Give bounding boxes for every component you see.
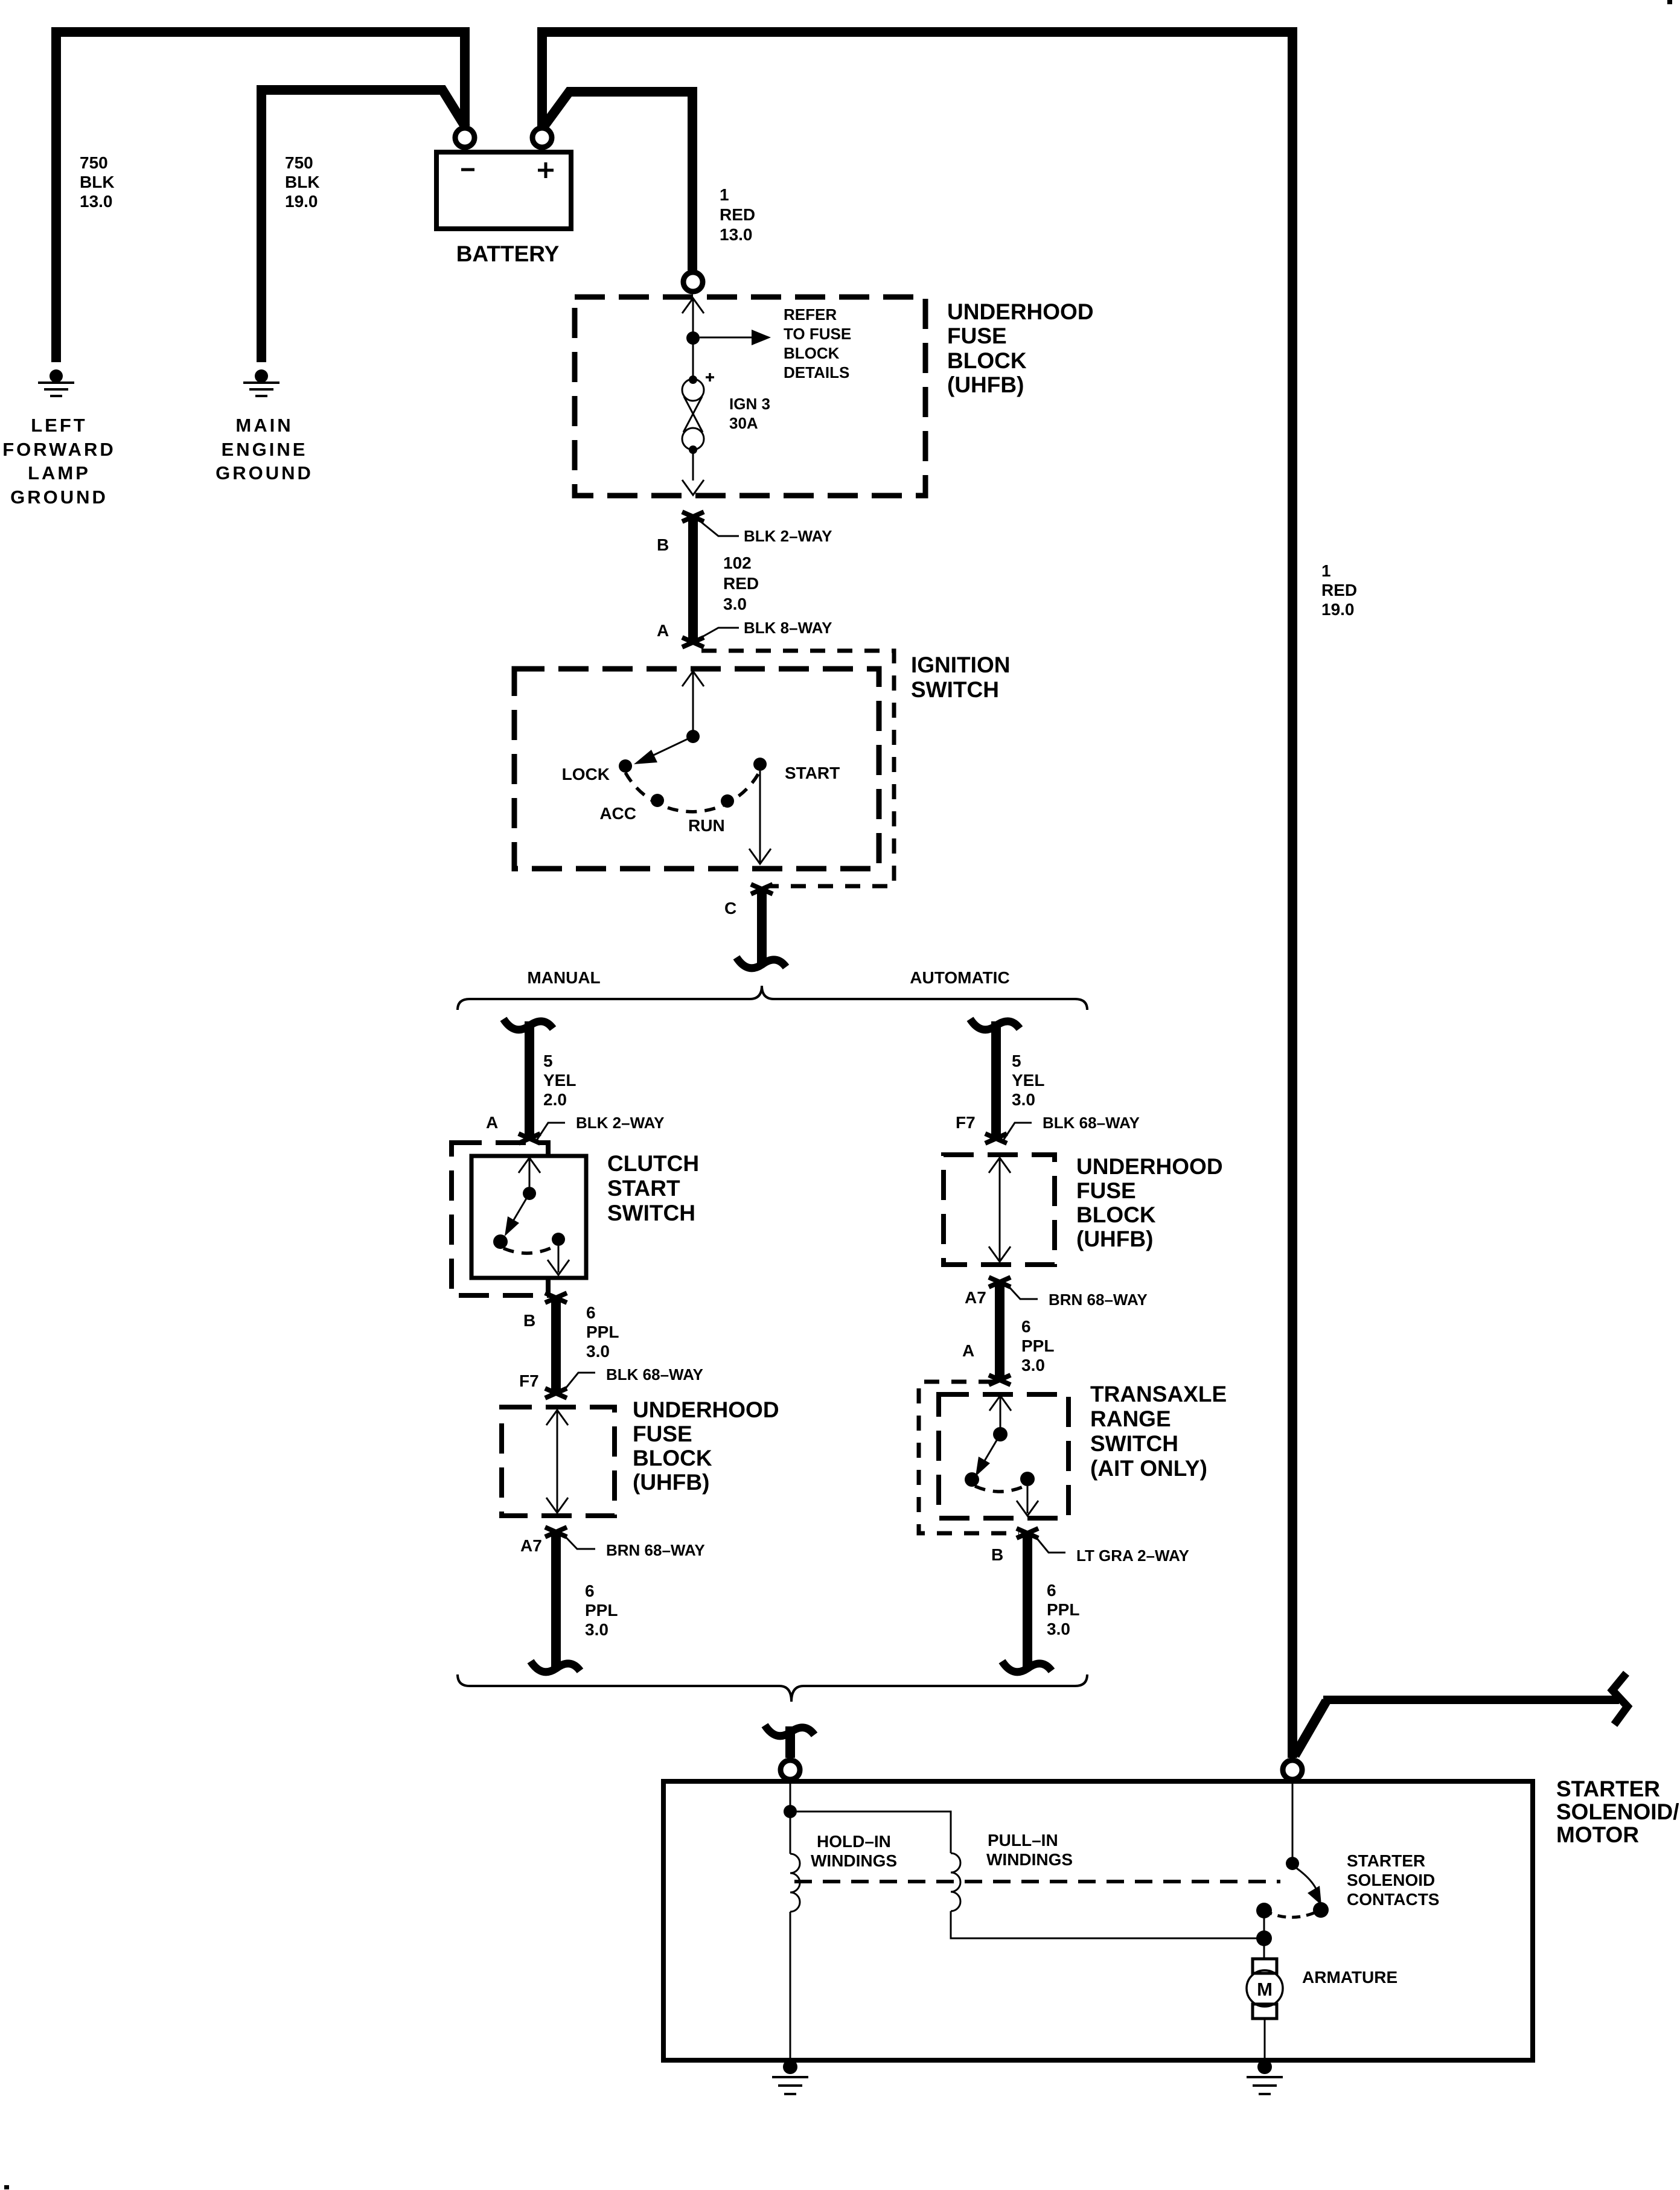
svg-text:3.0: 3.0: [1012, 1090, 1035, 1109]
brace splitting MANUAL / AUTOMATIC: [458, 986, 1087, 1010]
svg-text:ARMATURE: ARMATURE: [1302, 1968, 1397, 1987]
label LEFT FORWARD LAMP GROUND: [2, 415, 116, 508]
wire 750 BLK 13.0 battery negative to left forward lamp ground: [56, 32, 465, 362]
label CLUTCH START SWITCH: [607, 1151, 699, 1225]
svg-text:GROUND: GROUND: [216, 462, 313, 484]
leader LT GRA 2-WAY: [1035, 1536, 1065, 1553]
svg-text:A7: A7: [965, 1288, 986, 1307]
svg-text:(AIT ONLY): (AIT ONLY): [1090, 1456, 1207, 1481]
svg-text:LAMP: LAMP: [28, 462, 91, 484]
armature motor M: [1247, 1959, 1283, 2060]
svg-text:LEFT: LEFT: [31, 415, 88, 436]
svg-text:M: M: [1257, 1979, 1273, 2000]
node junction solenoid feed: [784, 1805, 797, 1818]
svg-text:3.0: 3.0: [585, 1620, 608, 1639]
svg-text:UNDERHOOD: UNDERHOOD: [947, 299, 1094, 324]
svg-text:C: C: [724, 899, 736, 918]
svg-text:6: 6: [585, 1582, 595, 1600]
solenoid contact dot left: [1256, 1903, 1272, 1918]
dashed solenoid contact arc: [1264, 1910, 1321, 1917]
svg-text:1: 1: [1321, 561, 1331, 580]
dashed arc transaxle contacts: [975, 1486, 1024, 1492]
svg-text:BLK 2–WAY: BLK 2–WAY: [576, 1114, 664, 1132]
svg-text:A: A: [486, 1113, 498, 1132]
svg-text:BLK: BLK: [80, 173, 115, 191]
leader BRN 68-WAY manual: [563, 1534, 595, 1549]
wire from ignition switch C: [757, 889, 767, 965]
battery positive terminal: [532, 128, 552, 147]
node junction in UHFB1: [686, 331, 700, 345]
svg-text:PPL: PPL: [585, 1601, 618, 1620]
svg-text:DETAILS: DETAILS: [784, 363, 849, 381]
svg-text:CONTACTS: CONTACTS: [1347, 1890, 1439, 1909]
svg-text:FUSE: FUSE: [633, 1422, 692, 1446]
svg-text:BRN 68–WAY: BRN 68–WAY: [1049, 1291, 1148, 1309]
leader BLK 8-WAY: [699, 628, 739, 639]
svg-text:A: A: [657, 621, 669, 640]
harness hook automatic lower: [1002, 1661, 1052, 1672]
hold-in winding coil: [790, 1854, 800, 1912]
svg-text:GROUND: GROUND: [10, 487, 108, 508]
svg-text:RUN: RUN: [688, 816, 725, 835]
contact dot ACC: [651, 794, 664, 807]
pin arrow into ignition switch: [682, 671, 704, 686]
wire 102 RED 3.0: [688, 517, 698, 641]
pin arrow out of ignition switch: [749, 849, 771, 864]
svg-text:YEL: YEL: [543, 1071, 576, 1090]
ground G3 hold-in: [772, 2060, 808, 2094]
transaxle output line: [1027, 1486, 1029, 1513]
svg-text:MOTOR: MOTOR: [1556, 1822, 1639, 1847]
svg-text:A: A: [962, 1341, 974, 1360]
label STARTER SOLENOID MOTOR: [1556, 1777, 1679, 1847]
pin arrow into UHFB1: [682, 298, 704, 313]
pull-in winding feed: [797, 1812, 951, 1853]
svg-text:5: 5: [1012, 1052, 1021, 1070]
hold-in winding feed line: [790, 1781, 791, 1854]
leader BLK 2-WAY top: [699, 520, 739, 536]
svg-text:30A: 30A: [729, 414, 758, 432]
wire 6 PPL 3.0 manual upper: [551, 1298, 561, 1392]
svg-text:UNDERHOOD: UNDERHOOD: [1076, 1154, 1223, 1179]
connector X mark transaxle pin A: [989, 1375, 1011, 1385]
underhood fuse block UHFB box 2: [502, 1407, 615, 1516]
svg-text:RED: RED: [723, 574, 759, 593]
label UNDERHOOD FUSE BLOCK (UHFB) 2: [633, 1397, 779, 1495]
svg-text:750: 750: [80, 153, 108, 172]
wire 5 YEL 2.0: [525, 1021, 534, 1137]
pin arrow out of clutch switch: [548, 1260, 569, 1275]
svg-text:START: START: [607, 1176, 680, 1201]
svg-text:UNDERHOOD: UNDERHOOD: [633, 1397, 779, 1422]
ignition switch inner box: [514, 669, 879, 869]
pin arrow into transaxle switch: [989, 1396, 1011, 1411]
svg-text:B: B: [657, 535, 669, 554]
svg-text:19.0: 19.0: [285, 192, 318, 211]
dashed detent arc LOCK-ACC-RUN-START: [625, 771, 760, 812]
svg-text:FORWARD: FORWARD: [2, 439, 116, 460]
svg-text:CLUTCH: CLUTCH: [607, 1151, 699, 1176]
wire 6 PPL 3.0 manual lower: [551, 1532, 561, 1670]
wire to starter solenoid S terminal: [785, 1726, 795, 1758]
svg-text:AUTOMATIC: AUTOMATIC: [910, 968, 1009, 987]
svg-text:(UHFB): (UHFB): [947, 372, 1024, 397]
starter solenoid motor box: [663, 1781, 1533, 2060]
svg-text:HOLD–IN: HOLD–IN: [817, 1832, 891, 1851]
svg-text:(UHFB): (UHFB): [1076, 1227, 1153, 1251]
leader BRN 68-WAY automatic: [1007, 1285, 1038, 1299]
svg-text:ENGINE: ENGINE: [222, 439, 308, 460]
wire 5 YEL 3.0: [991, 1021, 1001, 1137]
brace joining branches to starter: [458, 1674, 1087, 1702]
armature feed line: [1263, 1911, 1265, 1959]
wire stub to other circuits with break: [1295, 1701, 1326, 1755]
svg-text:BLK: BLK: [285, 173, 320, 191]
dashed arc clutch contacts: [503, 1246, 555, 1253]
ground G2 main engine ground: [243, 369, 279, 396]
svg-text:WINDINGS: WINDINGS: [986, 1850, 1073, 1869]
transaxle contact dot left: [965, 1472, 979, 1487]
harness hook automatic branch: [970, 1019, 1020, 1030]
ground G1 left forward lamp ground: [38, 369, 74, 396]
svg-text:3.0: 3.0: [1047, 1620, 1070, 1638]
solenoid contact pivot dot: [1286, 1857, 1299, 1870]
svg-text:750: 750: [285, 153, 313, 172]
transaxle range switch inner box: [939, 1394, 1068, 1518]
svg-text:BRN 68–WAY: BRN 68–WAY: [606, 1541, 705, 1559]
svg-text:SOLENOID/: SOLENOID/: [1556, 1799, 1679, 1824]
contact dot LOCK: [619, 759, 632, 773]
svg-text:19.0: 19.0: [1321, 600, 1355, 619]
solenoid contact dot right: [1313, 1902, 1329, 1918]
transaxle switch wiper arrow: [976, 1434, 1000, 1476]
svg-text:STARTER: STARTER: [1347, 1851, 1425, 1870]
pin arrow into clutch switch: [519, 1158, 540, 1173]
harness hook at C: [736, 957, 786, 968]
svg-text:BLK 68–WAY: BLK 68–WAY: [606, 1365, 703, 1384]
scan artifact top right: [1667, 0, 1672, 4]
contact dot START: [753, 758, 767, 771]
connector X mark A7 automatic: [989, 1277, 1011, 1287]
svg-text:2.0: 2.0: [543, 1090, 567, 1109]
clutch contact dot right: [552, 1233, 565, 1246]
connector X mark transaxle pin B: [1017, 1528, 1038, 1538]
node junction pull-in return: [1256, 1930, 1272, 1946]
svg-text:LT GRA 2–WAY: LT GRA 2–WAY: [1076, 1547, 1189, 1565]
svg-text:BLOCK: BLOCK: [633, 1446, 712, 1470]
pull-in winding return: [951, 1911, 1257, 1938]
connector X mark pin B: [682, 512, 704, 522]
svg-text:TO FUSE: TO FUSE: [784, 325, 851, 343]
pass-through arrows UHFB2: [546, 1410, 568, 1513]
svg-text:REFER: REFER: [784, 305, 837, 324]
leader BLK 2-WAY clutch: [535, 1123, 565, 1142]
harness hook starter feed: [765, 1725, 814, 1736]
svg-text:B: B: [523, 1311, 535, 1330]
hold-in winding ground line: [790, 1912, 791, 2060]
svg-text:STARTER: STARTER: [1556, 1777, 1660, 1801]
underhood fuse block UHFB box 1: [575, 297, 925, 496]
svg-text:SWITCH: SWITCH: [607, 1201, 695, 1225]
break symbol continuation: [1612, 1673, 1627, 1725]
ignition switch outer connector box: [701, 651, 894, 886]
svg-text:5: 5: [543, 1052, 553, 1070]
ground G4 armature: [1247, 2060, 1283, 2094]
svg-text:BLK 68–WAY: BLK 68–WAY: [1043, 1114, 1140, 1132]
underhood fuse block UHFB box 3: [944, 1155, 1055, 1265]
connector X mark A7 manual: [545, 1527, 567, 1537]
svg-text:BLOCK: BLOCK: [947, 348, 1027, 373]
svg-text:BLOCK: BLOCK: [1076, 1202, 1156, 1227]
wire 1 RED 13.0 battery positive to underhood fuse block: [545, 92, 692, 270]
terminal ring starter S: [781, 1760, 800, 1780]
svg-text:SWITCH: SWITCH: [911, 677, 999, 702]
connector X mark pin A: [682, 637, 704, 647]
transaxle contact dot right: [1020, 1472, 1035, 1486]
svg-text:A7: A7: [520, 1536, 542, 1555]
pass-through arrows UHFB3: [989, 1158, 1011, 1262]
svg-text:MAIN: MAIN: [235, 415, 293, 436]
svg-text:WINDINGS: WINDINGS: [811, 1851, 897, 1870]
svg-text:ACC: ACC: [599, 804, 636, 823]
label UNDERHOOD FUSE BLOCK (UHFB) 3: [1076, 1154, 1223, 1251]
fuse IGN 3 30A: [682, 373, 714, 480]
switch wiper arrow to LOCK: [634, 736, 693, 764]
svg-text:PPL: PPL: [1021, 1336, 1054, 1355]
connector X mark F7 manual: [545, 1388, 567, 1398]
svg-text:BATTERY: BATTERY: [456, 241, 560, 266]
svg-text:F7: F7: [956, 1113, 976, 1132]
svg-text:PULL–IN: PULL–IN: [988, 1831, 1058, 1850]
svg-text:FUSE: FUSE: [947, 324, 1007, 348]
terminal ring starter B+: [1283, 1760, 1302, 1780]
battery negative terminal: [455, 128, 474, 147]
label STARTER SOLENOID CONTACTS: [1347, 1851, 1439, 1909]
clutch output line: [558, 1246, 560, 1272]
svg-text:B: B: [991, 1545, 1003, 1564]
switch pivot node: [686, 730, 700, 743]
wire 6 PPL 3.0 automatic lower: [1023, 1533, 1032, 1670]
pin arrow out of UHFB1: [682, 480, 704, 495]
harness hook manual branch: [503, 1019, 553, 1030]
solenoid moving contact arrow: [1297, 1868, 1321, 1905]
svg-text:6: 6: [586, 1303, 596, 1322]
svg-text:IGN 3: IGN 3: [729, 395, 770, 413]
svg-text:102: 102: [723, 554, 752, 572]
svg-text:LOCK: LOCK: [562, 765, 610, 784]
leader BLK 68-WAY manual: [563, 1373, 595, 1392]
svg-text:3.0: 3.0: [723, 595, 747, 613]
svg-text:IGNITION: IGNITION: [911, 653, 1010, 677]
arrow REFER TO FUSE BLOCK DETAILS: [700, 330, 771, 345]
svg-text:BLOCK: BLOCK: [784, 344, 840, 362]
clutch switch wiper arrow: [505, 1193, 529, 1236]
label TRANSAXLE RANGE SWITCH (AIT ONLY): [1090, 1382, 1227, 1481]
svg-text:3.0: 3.0: [586, 1342, 610, 1361]
label UNDERHOOD FUSE BLOCK (UHFB) 1: [947, 299, 1094, 397]
svg-text:FUSE: FUSE: [1076, 1178, 1136, 1203]
svg-text:PPL: PPL: [586, 1323, 619, 1341]
solenoid feed contact line: [1292, 1781, 1294, 1857]
clutch start switch solid box: [471, 1156, 586, 1278]
svg-text:PPL: PPL: [1047, 1600, 1079, 1619]
wire 6 PPL 3.0 automatic upper: [995, 1282, 1004, 1379]
harness hook manual lower: [531, 1661, 580, 1672]
connector X mark clutch pin A: [519, 1134, 540, 1143]
svg-text:F7: F7: [519, 1371, 539, 1390]
svg-text:SWITCH: SWITCH: [1090, 1431, 1178, 1456]
svg-text:RED: RED: [1321, 581, 1357, 599]
svg-text:3.0: 3.0: [1021, 1356, 1045, 1374]
svg-text:MANUAL: MANUAL: [527, 968, 600, 987]
clutch switch pivot node: [523, 1187, 536, 1200]
dashed solenoid actuating line: [794, 1880, 1280, 1883]
battery BATTERY: [436, 152, 571, 229]
clutch start switch dashed boundary: [452, 1143, 548, 1295]
svg-text:BLK 2–WAY: BLK 2–WAY: [744, 527, 832, 545]
transaxle range switch outer connector box: [919, 1382, 1019, 1533]
transaxle switch pivot node: [993, 1427, 1008, 1441]
svg-text:RED: RED: [720, 205, 755, 224]
pull-in winding coil: [951, 1853, 960, 1911]
wire 750 BLK 19.0 battery negative to main engine ground: [261, 90, 466, 362]
svg-text:TRANSAXLE: TRANSAXLE: [1090, 1382, 1227, 1406]
clutch contact dot left: [493, 1234, 508, 1249]
svg-text:1: 1: [720, 185, 729, 204]
svg-text:RANGE: RANGE: [1090, 1406, 1171, 1431]
label REFER TO FUSE BLOCK DETAILS: [784, 305, 851, 381]
connector X mark pin C: [751, 884, 773, 894]
svg-text:13.0: 13.0: [720, 225, 753, 244]
connector X mark F7 automatic: [985, 1134, 1007, 1143]
svg-text:BLK 8–WAY: BLK 8–WAY: [744, 619, 832, 637]
START output line: [759, 771, 761, 862]
svg-text:(UHFB): (UHFB): [633, 1470, 709, 1495]
svg-text:13.0: 13.0: [80, 192, 113, 211]
leader BLK 68-WAY automatic: [1002, 1123, 1032, 1142]
svg-text:6: 6: [1021, 1317, 1031, 1336]
connector X mark clutch pin B: [545, 1293, 567, 1303]
pin arrow out of transaxle switch: [1017, 1501, 1038, 1516]
svg-text:START: START: [785, 764, 840, 782]
contact dot RUN: [721, 794, 734, 808]
svg-text:SOLENOID: SOLENOID: [1347, 1871, 1435, 1889]
terminal ring at UHFB feed: [683, 272, 703, 292]
scan artifact bottom left: [4, 2185, 9, 2189]
svg-text:6: 6: [1047, 1581, 1056, 1600]
label MAIN ENGINE GROUND: [216, 415, 313, 484]
wire 1 RED 19.0 battery positive main feed to starter: [542, 32, 1292, 1758]
svg-text:YEL: YEL: [1012, 1071, 1044, 1090]
